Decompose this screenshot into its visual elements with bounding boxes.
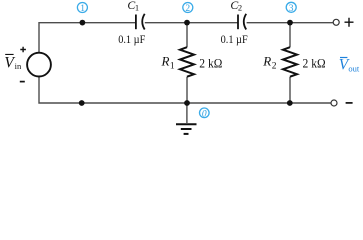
wire top-middle: C1 to C2: [145, 22, 238, 24]
svg-text:1: 1: [135, 3, 139, 13]
wire bottom rail: source bottom to - terminal: [39, 77, 331, 103]
svg-text:2: 2: [272, 62, 277, 72]
junction dot bottom middle: [184, 100, 190, 106]
terminal + (top right): [345, 18, 354, 27]
svg-text:2: 2: [238, 3, 242, 13]
svg-text:1: 1: [170, 62, 175, 72]
voltage source Vs circle: [27, 53, 51, 77]
resistor R1: [180, 47, 194, 76]
svg-text:0.1 µF: 0.1 µF: [221, 34, 248, 46]
junction dot node1 top: [80, 20, 86, 26]
voltage source + mark: [20, 47, 26, 53]
wire R2 branch vertical: [289, 23, 291, 103]
junction dot bottom left: [79, 100, 85, 106]
wire top-right: C2 to + terminal: [247, 22, 334, 24]
svg-text:R: R: [161, 54, 170, 69]
wire R1 branch vertical: [186, 23, 188, 103]
node 3 marker: [286, 2, 296, 14]
voltage source - mark: [20, 81, 25, 83]
capacitor C2: [238, 14, 246, 30]
terminal circle top right: [333, 19, 339, 25]
svg-text:R: R: [262, 54, 271, 69]
junction dot bottom right: [287, 100, 293, 106]
svg-text:0: 0: [202, 109, 207, 119]
wire top-left: source top to C1 left plate: [39, 23, 136, 53]
label R1: [161, 54, 175, 72]
svg-text:in: in: [15, 61, 22, 71]
svg-text:2: 2: [185, 4, 190, 14]
label C1: [127, 0, 139, 13]
svg-text:0.1 µF: 0.1 µF: [118, 34, 145, 46]
label R2: [262, 54, 276, 72]
label Vin: [4, 54, 22, 71]
svg-text:2 kΩ: 2 kΩ: [199, 57, 222, 71]
wire ground stub: [186, 103, 188, 123]
junction dot node2 top: [184, 20, 190, 26]
resistor R2: [283, 47, 297, 76]
svg-text:1: 1: [80, 4, 85, 14]
node 2 marker: [183, 3, 193, 15]
terminal circle bottom right: [331, 100, 337, 106]
node 1 marker: [77, 3, 87, 15]
label Vout: [339, 56, 360, 73]
ground: [176, 124, 197, 134]
terminal - (bottom right): [346, 102, 353, 104]
node 0 marker: [200, 108, 210, 119]
svg-text:2 kΩ: 2 kΩ: [303, 57, 326, 71]
junction dot node3 top: [287, 20, 293, 26]
svg-text:3: 3: [289, 4, 294, 14]
capacitor C1: [136, 14, 145, 30]
label C2: [230, 0, 242, 13]
svg-text:out: out: [348, 63, 360, 73]
